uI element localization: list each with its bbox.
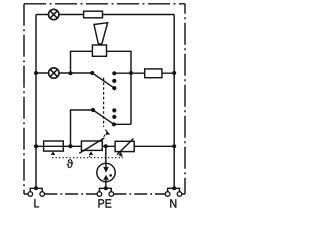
linkage arrowhead (106, 131, 111, 135)
switch2 pivot (91, 108, 95, 112)
wire switch1 output to resistor row (114, 72, 174, 74)
junction dot PE terminal (104, 186, 108, 190)
resistor R2 (145, 69, 162, 78)
gas tube arrow up (103, 175, 109, 180)
junction dot left bus lamp row (34, 71, 38, 75)
varistor RV2 body (115, 141, 134, 151)
switch1 contact middle (112, 79, 116, 83)
wire bottom varistor row (36, 145, 174, 147)
switch2 changeover arm (93, 110, 114, 124)
terminal PE clamp (97, 188, 114, 196)
switch1 changeover arm (92, 73, 114, 88)
switch2 contact middle (112, 115, 116, 119)
label PE (98, 199, 111, 207)
thermal arrow under RV1 (89, 151, 93, 155)
wire left bus L (35, 15, 37, 189)
gas discharge tube electrodes (105, 163, 107, 181)
enclosure dash-dot border (24, 4, 185, 194)
junction dot right bus resistor row (172, 71, 176, 75)
switch1 contact arm end (112, 86, 116, 90)
gas discharge tube circle (97, 163, 115, 181)
mechanical linkage dashed line (101, 78, 107, 142)
junction dot varistor row gas tube tap (104, 144, 108, 148)
junction dot right bus bottom row (172, 144, 176, 148)
wire lamp row (36, 72, 92, 74)
varistor RV2 diagonal (117, 139, 134, 155)
junction dot disconnector riser (69, 71, 73, 75)
junction dot left bus bottom row (34, 144, 38, 148)
switch2 contact arm end (112, 122, 116, 126)
switch1 contact top (112, 71, 116, 75)
junction dot switch2 feed bottom (69, 144, 73, 148)
wire right bus N (173, 15, 175, 189)
thermal release dotted line (52, 154, 123, 158)
terminal N clamp (165, 188, 182, 196)
lamp H2 lower indicator (49, 68, 59, 78)
disconnector box (92, 45, 106, 56)
junction dot x131 resistor row (129, 71, 133, 75)
junction dot N terminal (172, 186, 176, 190)
junction dot L terminal (34, 186, 38, 190)
lamp H1 top indicator (49, 9, 59, 19)
wire switch2 feed (71, 110, 94, 146)
thermal arrow under RV2 (118, 152, 122, 156)
switch1 pivot (90, 71, 94, 75)
wire gas tube branch to PE (105, 146, 107, 188)
wire top row L1 (36, 14, 174, 16)
wire switch2 output (114, 123, 131, 125)
varistor RV1 body (81, 141, 102, 150)
label theta (67, 159, 73, 168)
wire disconnector feed riser (71, 51, 93, 73)
switch2 contact top (112, 108, 116, 112)
gas tube arrow down (103, 167, 109, 173)
terminal L clamp (28, 188, 45, 196)
varistor RV1 diagonal (79, 138, 104, 153)
disconnector wedge (94, 23, 108, 44)
label N (170, 199, 176, 207)
gas tube dot (109, 174, 112, 177)
wire disconnector output (107, 51, 132, 124)
label L (34, 199, 39, 207)
fuse F1 bottom left (44, 141, 64, 151)
thermal arrow under R3 (51, 151, 55, 155)
resistor R1 top (84, 11, 103, 18)
